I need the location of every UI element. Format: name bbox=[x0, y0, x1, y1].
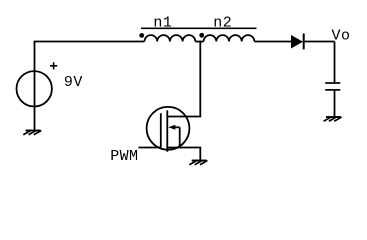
wire n2 to diode bbox=[254, 41, 291, 43]
wire capacitor to ground bbox=[334, 90, 336, 117]
polarity dot n2 bbox=[199, 33, 204, 38]
wire top rail from source to n1 bbox=[34, 41, 145, 43]
MOSFET source wire to ground bbox=[167, 148, 200, 161]
inductor n1 winding bbox=[145, 35, 196, 41]
MOSFET channel bar bbox=[166, 110, 168, 151]
polarity dot n1 bbox=[139, 33, 144, 38]
MOSFET gate plate bbox=[160, 113, 162, 147]
wire left rail vertical through source bbox=[34, 42, 36, 131]
wire Vo node down to capacitor bbox=[334, 42, 336, 84]
ground G2 below capacitor bbox=[324, 117, 342, 121]
svg-text:n2: n2 bbox=[213, 15, 232, 32]
ground G1 below source bbox=[23, 131, 41, 135]
transformer core line bbox=[141, 27, 257, 29]
MOSFET gate wire bbox=[139, 147, 161, 149]
wire between n1 and n2 tap bbox=[195, 41, 203, 43]
diode D1 cathode bar bbox=[303, 34, 305, 50]
inductor n2 winding bbox=[204, 35, 255, 41]
wire tap riser to MOSFET drain bbox=[167, 42, 200, 117]
ground G3 below MOSFET source bbox=[189, 161, 207, 165]
MOSFET Q1 body circle bbox=[147, 107, 190, 150]
voltage source V1 circle bbox=[17, 71, 52, 106]
svg-text:n1: n1 bbox=[153, 15, 172, 32]
svg-text:PWM: PWM bbox=[110, 148, 138, 165]
svg-text:9V: 9V bbox=[64, 74, 83, 91]
capacitor C1 top plate bbox=[325, 82, 340, 84]
MOSFET bulk arrow bbox=[168, 125, 179, 148]
wire diode to Vo node bbox=[304, 41, 335, 43]
diode D1 anode triangle bbox=[292, 36, 303, 48]
capacitor C1 bottom plate bbox=[325, 89, 340, 91]
voltage source plus sign bbox=[50, 62, 57, 69]
